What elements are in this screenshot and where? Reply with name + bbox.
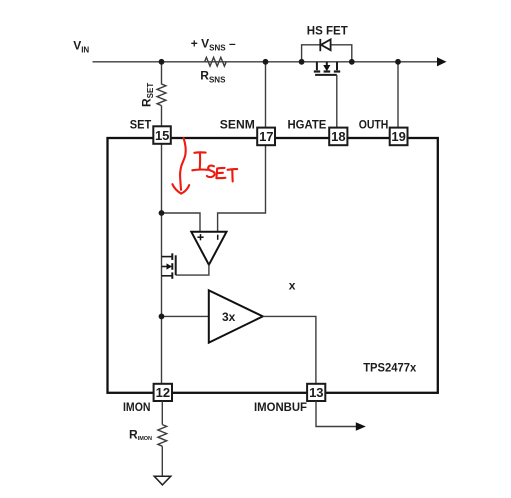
transistor HS FET body arrow — [326, 62, 328, 66]
resistor RSNS — [205, 57, 227, 66]
transistor Q1 source stub — [162, 275, 173, 277]
svg-text:TPS2477x: TPS2477x — [363, 361, 416, 375]
svg-text:SENM: SENM — [220, 118, 255, 132]
op-amp U1 plus input mark — [197, 236, 203, 238]
svg-text:19: 19 — [391, 129, 405, 144]
wire IMONBUF output — [316, 401, 356, 426]
svg-text:x: x — [289, 279, 296, 293]
pin box 13 — [307, 384, 325, 401]
transistor HS FET gate plate — [315, 74, 337, 76]
wire R_SET bottom lead — [161, 106, 163, 127]
pin box 15 — [153, 126, 171, 144]
junction dot rail-OUTH — [395, 59, 401, 65]
transistor HS FET source lead — [336, 62, 338, 70]
output arrow IMONBUF — [356, 422, 366, 430]
wire diode bypass loop — [302, 45, 352, 62]
wire R_SET top lead — [161, 62, 163, 85]
svg-text:SET: SET — [130, 118, 152, 132]
svg-text:18: 18 — [331, 129, 345, 144]
transistor Q1 drain stub — [162, 256, 173, 258]
wire SET internal rail — [161, 144, 163, 384]
op-amp U1 — [191, 232, 226, 265]
junction dot SET-3x — [159, 314, 165, 320]
junction dot rail-RSET — [159, 59, 165, 65]
transistor HS FET drain lead — [316, 62, 318, 70]
svg-text:IMON: IMON — [123, 400, 151, 414]
svg-text:OUTH: OUTH — [359, 118, 389, 132]
junction dot rail-bypass-left — [299, 59, 305, 65]
resistor RSET — [157, 84, 166, 106]
output arrow right end of rail — [437, 57, 447, 66]
junction dot SET-opamp — [159, 210, 165, 216]
wire HGATE gate lead — [336, 75, 338, 128]
svg-text:12: 12 — [156, 385, 170, 400]
pin box 18 — [329, 128, 347, 146]
transistor Q1 contacts — [171, 253, 173, 260]
junction dot rail-SENM — [263, 59, 269, 65]
svg-text:HS FET: HS FET — [307, 24, 349, 38]
wire SENM drop from rail — [265, 62, 267, 128]
wire 3x amp input — [162, 315, 209, 317]
svg-text:3x: 3x — [222, 310, 236, 324]
wire OUTH drop from rail — [397, 62, 399, 128]
svg-text:IMONBUF: IMONBUF — [254, 400, 307, 414]
wire main input rail — [93, 61, 438, 63]
wire opamp output to Q1 gate — [176, 265, 209, 276]
wire SENM internal to opamp minus — [218, 145, 266, 232]
transistor HS FET channel dashes — [314, 70, 320, 72]
label RSET (rotated) — [140, 83, 156, 107]
diode D1 cathode bar — [319, 39, 321, 51]
wire opamp plus branch — [162, 213, 201, 232]
resistor RIMON — [158, 425, 167, 447]
red annotation label ISET — [192, 152, 208, 170]
transistor Q1 body arrow — [162, 266, 168, 268]
diode D1 body — [321, 39, 331, 50]
transistor Q1 gate plate — [175, 255, 177, 275]
op-amp U1 minus input mark — [217, 235, 219, 240]
svg-text:17: 17 — [259, 129, 273, 144]
junction dot rail-bypass-right — [349, 59, 355, 65]
ground — [154, 476, 171, 485]
wire RIMON to ground — [161, 446, 163, 476]
svg-text:15: 15 — [155, 128, 169, 143]
pin box 12 — [154, 384, 172, 401]
amplifier U2 3x — [209, 290, 263, 342]
pin box 17 — [257, 128, 275, 146]
pin box 19 — [390, 128, 408, 146]
wire IMON to RIMON — [161, 401, 163, 424]
svg-text:13: 13 — [309, 385, 323, 400]
IC TPS2477x body — [108, 138, 438, 393]
red annotation arrow ISET — [172, 138, 237, 194]
svg-text:HGATE: HGATE — [288, 118, 327, 132]
wire 3x amp output to pin13 — [263, 316, 316, 383]
